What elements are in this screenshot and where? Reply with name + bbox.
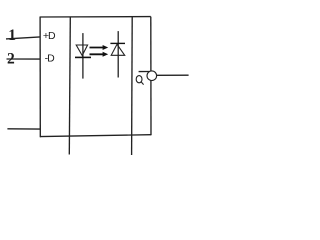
LED D1 triangle	[76, 45, 87, 56]
light emission arrow upper	[90, 45, 109, 50]
LED D1 vertical wire	[82, 33, 84, 79]
output lead wire	[156, 74, 188, 76]
pin 1 input wire	[6, 37, 40, 39]
relay module U1 outline: top edge	[40, 16, 151, 18]
svg-text:1: 1	[8, 27, 16, 44]
svg-text:-D: -D	[45, 53, 55, 65]
relay module U1 outline: bottom edge	[40, 135, 151, 137]
output transistor label Q	[136, 76, 143, 85]
input section divider wire (extends below as pin lead)	[69, 17, 70, 155]
svg-text:+D: +D	[43, 30, 56, 42]
photodiode D2 cathode bar	[110, 42, 125, 44]
relay module U1 outline: right edge	[150, 17, 152, 136]
photodiode D2 vertical wire	[117, 31, 119, 77]
light emission arrow lower	[90, 52, 109, 57]
output section divider wire (extends below as pin lead)	[131, 17, 134, 155]
svg-text:2: 2	[7, 50, 15, 67]
bottom-left pin wire	[7, 128, 40, 130]
LED D1 cathode bar	[75, 56, 91, 58]
photodiode D2 triangle	[111, 44, 125, 55]
pin 2 input wire	[7, 58, 41, 60]
output contact circle	[147, 71, 157, 81]
switch lever wire	[139, 71, 150, 73]
relay module U1 outline: left edge	[39, 17, 41, 138]
